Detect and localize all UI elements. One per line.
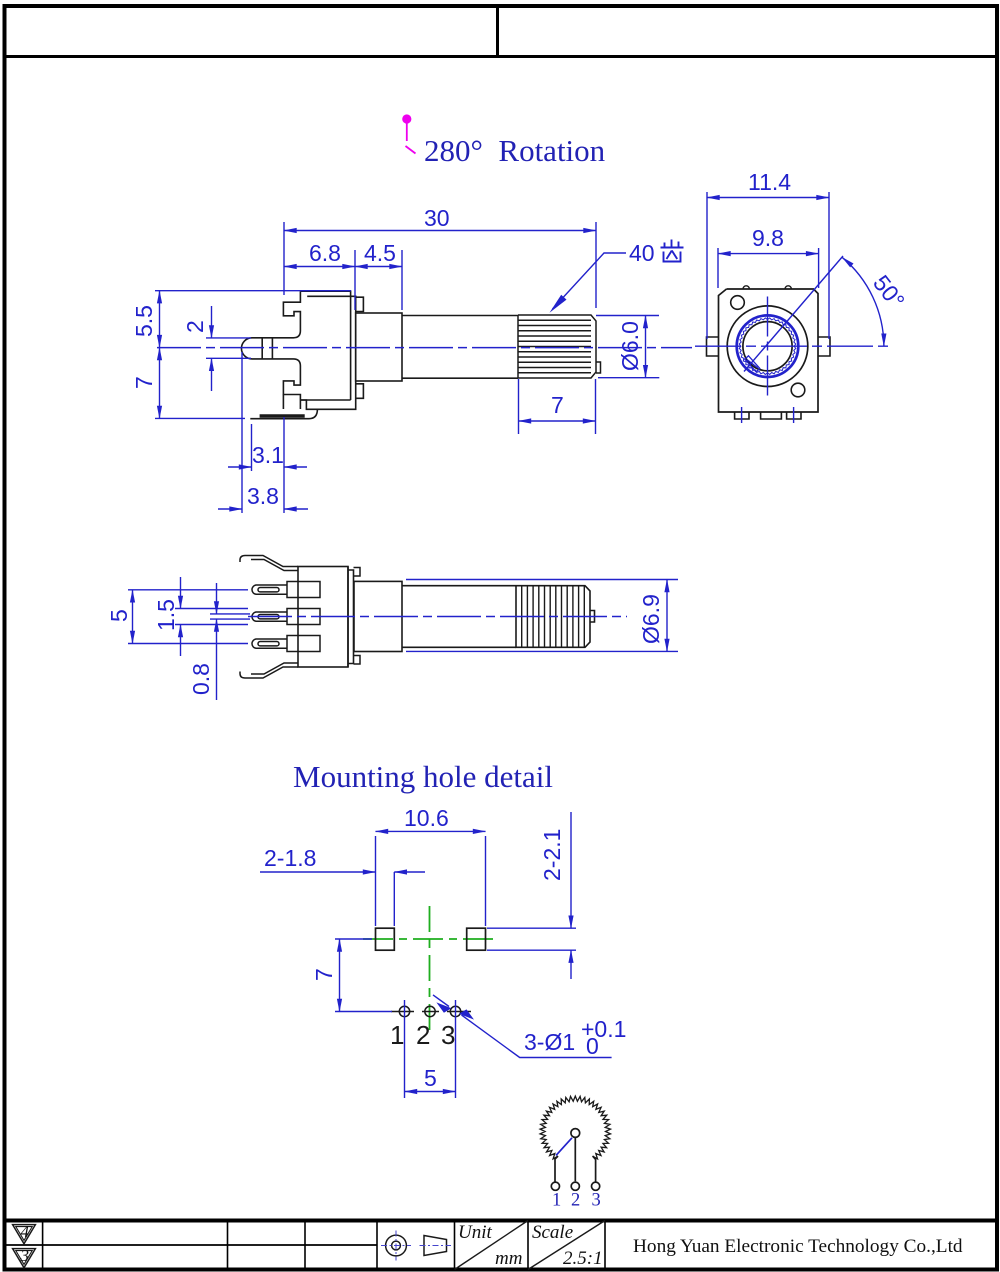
- svg-text:1: 1: [552, 1191, 561, 1211]
- dimension 7 (left): [155, 348, 245, 419]
- front view: shaft slot indicator: [745, 356, 760, 372]
- svg-text:6.8: 6.8: [309, 240, 341, 266]
- side view: center terminal pin: [241, 338, 272, 359]
- mounting: square hole right: [467, 928, 486, 950]
- svg-text:5: 5: [424, 1065, 437, 1091]
- front view: body square: [719, 286, 819, 412]
- side view: rear mounting tabs: [356, 297, 364, 398]
- rotation index marker (magenta pin): [402, 114, 415, 153]
- svg-text:Ø6.9: Ø6.9: [638, 594, 664, 644]
- top view: terminal 1: [252, 582, 320, 598]
- dimension 3.1: [228, 424, 307, 471]
- scale cell: [528, 1221, 605, 1270]
- mounting: pin hole 1: [391, 1006, 414, 1016]
- svg-text:3: 3: [441, 1020, 455, 1050]
- dimension 10.6: [376, 831, 486, 926]
- top view: body: [298, 567, 354, 668]
- dimension 2: [206, 306, 251, 391]
- mounting: green center lines: [363, 906, 497, 1031]
- front view: side lugs: [707, 337, 831, 356]
- svg-text:1.5: 1.5: [153, 599, 179, 631]
- mounting: square hole left: [376, 928, 395, 950]
- front view: center lines: [695, 297, 888, 424]
- label 40 teeth with leader: [550, 253, 627, 313]
- svg-text:2-2.1: 2-2.1: [539, 829, 565, 881]
- front view: mounting pips: [731, 296, 745, 310]
- svg-text:1: 1: [390, 1020, 404, 1050]
- top view: lower support arm: [240, 663, 298, 678]
- dimension dia 6.9: [406, 580, 678, 652]
- top view: upper support arm: [240, 556, 298, 571]
- svg-text:11.4: 11.4: [748, 169, 791, 195]
- top view: knurled end: [516, 586, 595, 648]
- front view: shaft bore circle: [743, 322, 792, 371]
- dimension 1.5: [175, 577, 248, 656]
- mounting: pin hole 2: [422, 1006, 439, 1016]
- svg-text:5: 5: [106, 609, 132, 622]
- top view: shaft: [402, 586, 516, 648]
- schematic: wiper terminal: [571, 1129, 580, 1191]
- label 3-dia1 with tolerance and leader: [433, 995, 612, 1058]
- svg-text:3-Ø1: 3-Ø1: [524, 1029, 575, 1055]
- svg-text:3.8: 3.8: [247, 483, 279, 509]
- schematic: resistive track (zigzag ring): [540, 1096, 610, 1159]
- svg-text:4.5: 4.5: [364, 240, 396, 266]
- svg-text:3.1: 3.1: [252, 442, 284, 468]
- front view: 40-tooth serration ring: [737, 315, 799, 377]
- svg-text:Scale: Scale: [532, 1222, 573, 1243]
- svg-text:2: 2: [182, 320, 208, 333]
- side view: knurled end: [518, 315, 601, 378]
- dimension dia 6.0: [596, 316, 659, 378]
- side view: body outline: [300, 291, 355, 409]
- dimension 2-1.8: [260, 872, 425, 926]
- dimension 5 (pin pitch): [405, 1091, 456, 1093]
- top view: bushing: [354, 581, 402, 651]
- svg-text:Ø6.0: Ø6.0: [617, 321, 643, 371]
- svg-text:5.5: 5.5: [131, 305, 157, 337]
- svg-text:2: 2: [416, 1020, 430, 1050]
- side view: front bracket with hooks: [262, 291, 300, 400]
- mounting: hole axis lines: [405, 1000, 456, 1098]
- side view: center line: [157, 347, 692, 349]
- svg-text:0.8: 0.8: [188, 663, 214, 695]
- svg-text:4: 4: [21, 1222, 30, 1241]
- title block: grid: [6, 1221, 996, 1270]
- unit cell: [455, 1221, 529, 1270]
- svg-text:40: 40: [629, 240, 655, 266]
- dimension 50 deg arc: [842, 257, 884, 346]
- svg-text:9.8: 9.8: [752, 225, 784, 251]
- svg-text:30: 30: [424, 205, 450, 231]
- schematic: terminal 1 lead: [551, 1156, 559, 1190]
- dimension 5 (pin span): [128, 590, 248, 644]
- dimension 4.5: [355, 250, 402, 310]
- dimension 11.4: [707, 192, 829, 339]
- svg-text:Unit: Unit: [458, 1222, 493, 1243]
- svg-text:Hong Yuan Electronic Technolog: Hong Yuan Electronic Technology Co.,Ltd: [633, 1236, 963, 1257]
- front view: rotation diagonal: [744, 256, 843, 372]
- dimension 9.8: [718, 248, 819, 288]
- front view: bushing circle: [727, 306, 808, 387]
- svg-text:0: 0: [586, 1033, 599, 1059]
- svg-text:280° Rotation: 280° Rotation: [424, 133, 606, 168]
- top view: center line: [248, 616, 627, 618]
- dimension 7 (knurl): [519, 379, 596, 434]
- svg-text:2-1.8: 2-1.8: [264, 845, 316, 871]
- dimension 3.8: [218, 352, 308, 513]
- svg-text:50°: 50°: [868, 270, 910, 313]
- schematic: wiper arm: [556, 1138, 572, 1156]
- dimension 2-2.1: [487, 812, 576, 979]
- side view: shaft: [402, 316, 518, 379]
- svg-text:7: 7: [551, 392, 564, 418]
- svg-text:mm: mm: [495, 1248, 522, 1269]
- svg-text:3: 3: [592, 1191, 601, 1211]
- dimension 0.8: [210, 583, 250, 700]
- roughness symbol grade 3: [13, 1249, 36, 1268]
- svg-text:2.5:1: 2.5:1: [563, 1248, 603, 1269]
- first angle projection symbol: circles: [381, 1231, 411, 1261]
- dimension 30: [284, 222, 596, 308]
- schematic: terminal 3 lead: [592, 1156, 600, 1190]
- svg-text:2: 2: [571, 1191, 580, 1211]
- svg-text:3: 3: [20, 1246, 30, 1265]
- roughness symbol grade 4: [13, 1225, 36, 1244]
- side view: bushing: [356, 313, 402, 381]
- dimension 7 (hole rows): [335, 939, 392, 1012]
- first angle projection symbol: cone view: [420, 1236, 452, 1256]
- dimension 5.5: [155, 291, 351, 348]
- dimension 6.8: [284, 250, 355, 310]
- svg-text:7: 7: [311, 968, 337, 981]
- svg-text:Mounting hole detail: Mounting hole detail: [293, 759, 553, 794]
- svg-text:10.6: 10.6: [404, 805, 449, 831]
- front view: terminals bottom: [735, 412, 801, 419]
- mounting: pin hole 3: [447, 1006, 471, 1016]
- top view: terminal 2: [252, 609, 320, 625]
- top view: rear tabs: [354, 568, 361, 665]
- side view: bottom foot bracket: [250, 395, 317, 419]
- top view: terminal 3: [252, 636, 320, 652]
- svg-text:7: 7: [131, 376, 157, 389]
